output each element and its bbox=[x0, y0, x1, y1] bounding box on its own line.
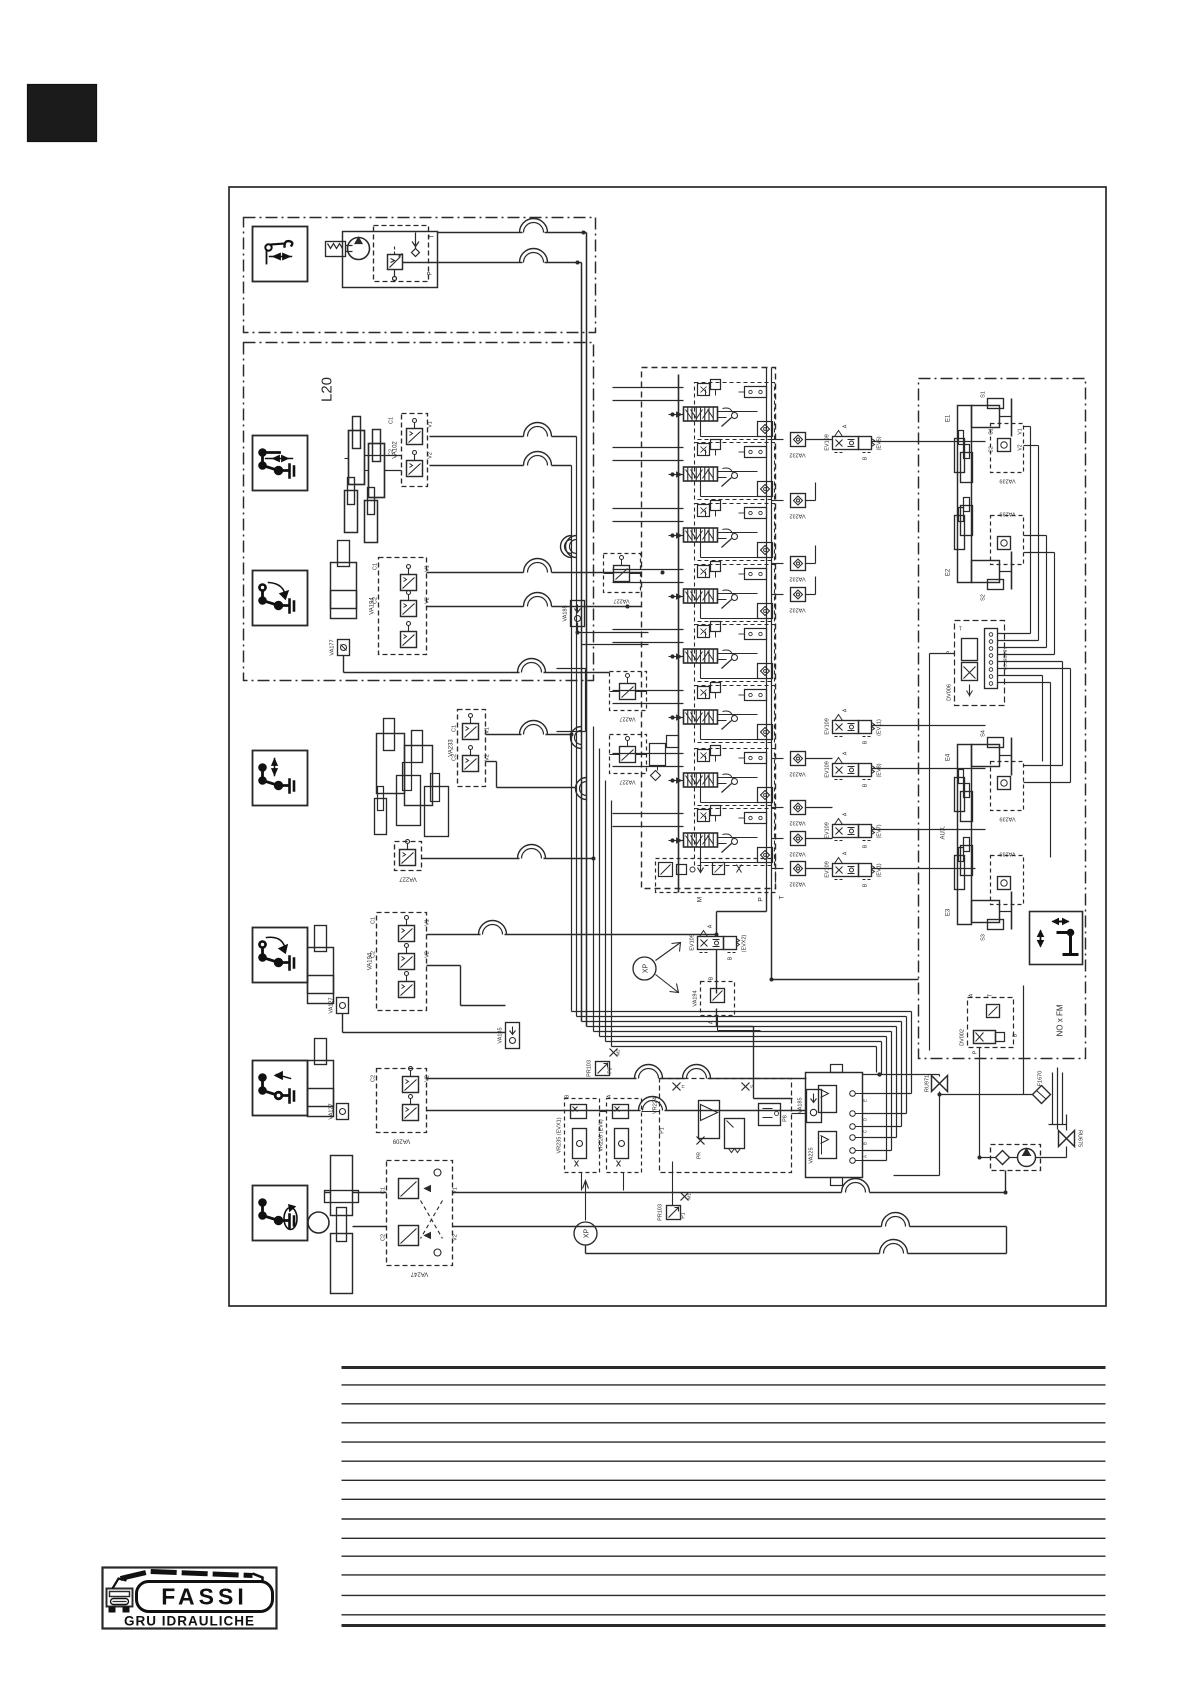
main schematic border frame bbox=[229, 187, 1106, 1306]
svg-text:E3: E3 bbox=[946, 908, 952, 916]
svg-text:VA232: VA232 bbox=[789, 820, 805, 826]
cylinder E2 bbox=[946, 552, 1012, 601]
svg-text:T: T bbox=[959, 627, 962, 633]
svg-text:VA232: VA232 bbox=[789, 513, 805, 519]
svg-text:V2: V2 bbox=[425, 951, 431, 958]
svg-text:C2: C2 bbox=[371, 951, 377, 958]
valve VA177 bbox=[330, 639, 350, 655]
cylinder extension rams E3/E4 bbox=[955, 770, 973, 890]
wire boom V1 line bbox=[430, 423, 577, 437]
valve RU971 bbox=[925, 1075, 948, 1092]
svg-text:RU971: RU971 bbox=[925, 1075, 931, 1092]
wire EV109 outputs to stabilizer section bbox=[872, 442, 986, 869]
svg-text:(EV5): (EV5) bbox=[877, 436, 883, 450]
svg-text:GRU IDRAULICHE: GRU IDRAULICHE bbox=[124, 1614, 255, 1629]
svg-text:VA232: VA232 bbox=[789, 771, 805, 777]
svg-text:P3: P3 bbox=[608, 1067, 614, 1073]
wire jib VA127 line bbox=[343, 1014, 506, 1033]
valve VA185 boom line check bbox=[563, 601, 585, 627]
svg-text:V1: V1 bbox=[425, 919, 431, 926]
valve VA232 #6 bbox=[789, 801, 805, 826]
svg-text:V1: V1 bbox=[1018, 428, 1024, 434]
svg-text:C2: C2 bbox=[381, 1234, 387, 1241]
rotary actuator slewing cylinder bbox=[308, 1156, 359, 1294]
wire tank rail T (double) bbox=[767, 368, 772, 893]
solenoid valve EV109 (EV11) bbox=[825, 708, 883, 744]
svg-text:T: T bbox=[430, 234, 436, 238]
valve VA232 #1 bbox=[789, 433, 805, 458]
wire vertical crossover bumps bbox=[561, 536, 587, 800]
wire telescopic V1 line bbox=[486, 721, 572, 735]
valve VA232 #4 bbox=[789, 588, 805, 613]
valve block VA225 bbox=[806, 1065, 868, 1186]
valve VR224 hand pump group bbox=[653, 1079, 792, 1173]
svg-text:C1: C1 bbox=[373, 563, 379, 570]
svg-text:V2: V2 bbox=[453, 1234, 459, 1241]
wire jib V1 line bbox=[427, 921, 701, 935]
valve VA127 jib bbox=[329, 997, 349, 1013]
svg-text:VA185: VA185 bbox=[798, 1097, 804, 1113]
svg-text:C2: C2 bbox=[371, 1075, 377, 1082]
valve VA239 #2 bbox=[991, 511, 1024, 565]
valve VA239 #4 bbox=[991, 851, 1024, 905]
svg-text:P1: P1 bbox=[660, 1127, 666, 1133]
svg-text:VA232: VA232 bbox=[789, 881, 805, 887]
wire outer boom V1 line bbox=[427, 559, 642, 573]
svg-text:A: A bbox=[863, 1155, 868, 1158]
svg-text:B: B bbox=[863, 1142, 868, 1145]
svg-text:VA227: VA227 bbox=[613, 598, 629, 604]
cylinder jib lift bbox=[308, 926, 334, 1004]
svg-text:(EVX2): (EVX2) bbox=[742, 934, 748, 952]
svg-text:VA185: VA185 bbox=[498, 1027, 504, 1043]
wire XP return line bbox=[586, 1240, 1007, 1254]
function icon 6 (jib articulation) bbox=[253, 1061, 308, 1116]
valve VA227 telescopic bbox=[395, 840, 422, 882]
svg-text:L20: L20 bbox=[319, 377, 336, 402]
svg-text:EV109: EV109 bbox=[825, 718, 831, 735]
svg-text:VA239: VA239 bbox=[999, 511, 1015, 517]
PTO section dash-dot box bbox=[244, 218, 596, 333]
valve VA232 #2 bbox=[789, 494, 805, 519]
valve VA232 #8 bbox=[789, 862, 805, 887]
svg-text:PR: PR bbox=[697, 1152, 703, 1159]
cylinder outer boom bbox=[331, 541, 357, 619]
directional valve module 4 bbox=[613, 562, 775, 622]
auxiliary block near module 7 bbox=[650, 736, 679, 781]
directional valve module 3 bbox=[613, 501, 775, 561]
wire stabilizer section harness to DV006 connector bbox=[930, 427, 1071, 1051]
svg-text:VA225: VA225 bbox=[809, 1147, 815, 1163]
L20 crane section dash-dot box bbox=[244, 343, 594, 681]
svg-text:VA227: VA227 bbox=[399, 876, 417, 882]
svg-text:VA232: VA232 bbox=[789, 851, 805, 857]
valve VA233 (telescopic counterbalance) bbox=[449, 710, 491, 787]
svg-text:V2: V2 bbox=[425, 597, 431, 604]
wire VA177 return line bbox=[344, 656, 610, 673]
svg-text:P: P bbox=[428, 271, 434, 275]
svg-text:E: E bbox=[863, 1099, 868, 1102]
valve DV002 bbox=[960, 993, 1019, 1054]
valve VA185 articulation check bbox=[798, 1090, 822, 1123]
svg-text:S4: S4 bbox=[981, 730, 987, 737]
svg-text:V2: V2 bbox=[485, 754, 491, 761]
wire jib V2 line bbox=[427, 966, 506, 1006]
svg-text:C1: C1 bbox=[389, 417, 395, 424]
function icon 7 (slewing) bbox=[253, 1186, 308, 1241]
valve VR226 (EV4) bbox=[599, 1094, 642, 1172]
filter F1670 bbox=[1033, 1071, 1051, 1104]
svg-text:H: H bbox=[681, 1085, 686, 1088]
wire jib articulation V1 line bbox=[427, 1065, 807, 1079]
svg-text:T: T bbox=[988, 994, 994, 997]
wire boom V2 line bbox=[430, 452, 572, 466]
wire pressure rail P bbox=[678, 375, 680, 893]
main control valve bank enclosure (dashed) bbox=[642, 368, 776, 889]
wire slewing supply from cylinder bbox=[325, 1193, 387, 1227]
svg-text:VA239: VA239 bbox=[999, 816, 1015, 822]
diverter valve DV006 with connector bbox=[947, 621, 1008, 706]
svg-text:EV109: EV109 bbox=[825, 861, 831, 878]
svg-text:M1: M1 bbox=[687, 1193, 692, 1200]
FASSI logo bbox=[103, 1568, 277, 1629]
wire jib line to EVX2 and VA194 pilot chain bbox=[701, 893, 793, 1099]
svg-text:ABCDEFGH: ABCDEFGH bbox=[1003, 647, 1008, 670]
valve VA194 pilot (B/A) bbox=[693, 976, 761, 1030]
svg-text:S1: S1 bbox=[981, 391, 987, 398]
wire telescopic V2 line bbox=[486, 762, 577, 788]
stabilizer section dash-dot box bbox=[919, 379, 1086, 1059]
valve VA232 #7 bbox=[789, 832, 805, 857]
wire outer boom V2 line bbox=[427, 593, 642, 607]
valve VA232 #5 bbox=[789, 752, 805, 777]
svg-text:PR103: PR103 bbox=[658, 1204, 664, 1221]
valve RU675 bbox=[1059, 1130, 1083, 1147]
svg-text:VA247: VA247 bbox=[410, 1271, 428, 1277]
svg-text:VA227: VA227 bbox=[619, 716, 635, 722]
svg-text:VA232: VA232 bbox=[789, 452, 805, 458]
wire telescopic VA227 line bbox=[422, 845, 594, 859]
svg-text:EV109: EV109 bbox=[825, 761, 831, 778]
valve VA194 (jib holding valve) bbox=[368, 913, 431, 1011]
wire bundle risers to lower manifold bbox=[572, 1012, 912, 1161]
cylinder group telescopic extensions bbox=[375, 719, 449, 837]
svg-text:C2: C2 bbox=[373, 597, 379, 604]
pressure gauge PR103 P3 bbox=[587, 1049, 621, 1077]
svg-text:VA232: VA232 bbox=[789, 576, 805, 582]
directional valve module 2 bbox=[613, 440, 775, 500]
directional valve module 1 bbox=[613, 380, 775, 440]
svg-text:E2: E2 bbox=[946, 568, 952, 576]
svg-text:M2: M2 bbox=[616, 1049, 621, 1056]
cylinder group boom (two lift cylinders) bbox=[345, 417, 402, 543]
valve VA194 (outer boom holding valve) bbox=[370, 558, 431, 655]
label L20 bbox=[319, 377, 336, 402]
stabilizer group E3/E4 frame bbox=[958, 745, 972, 925]
solenoid valve EV109 (EV8) bbox=[825, 751, 883, 787]
wire slewing V2 line bbox=[453, 1213, 1007, 1254]
cylinder E4 bbox=[946, 730, 1012, 775]
svg-text:EV109: EV109 bbox=[825, 822, 831, 839]
auxiliary pump group bbox=[991, 1145, 1041, 1171]
svg-text:P8: P8 bbox=[783, 1115, 789, 1122]
wire VR224 pilot lines bbox=[582, 1112, 806, 1206]
function icon 3 (boom articulation) bbox=[253, 571, 308, 626]
tank reservoir bbox=[1049, 1068, 1067, 1130]
cylinder E3 bbox=[946, 892, 1012, 941]
svg-text:F1670: F1670 bbox=[1038, 1071, 1044, 1087]
svg-text:VA127: VA127 bbox=[329, 997, 335, 1013]
svg-text:VA177: VA177 bbox=[330, 639, 336, 655]
function icon 2 (boom raise) bbox=[253, 436, 308, 491]
svg-text:C1: C1 bbox=[989, 428, 995, 435]
svg-text:FASSI: FASSI bbox=[161, 1584, 247, 1610]
svg-text:XP: XP bbox=[584, 1229, 591, 1239]
svg-text:EV109: EV109 bbox=[690, 934, 696, 951]
function icon 5 (jib raise) bbox=[253, 928, 308, 983]
svg-text:VA194: VA194 bbox=[693, 990, 699, 1006]
svg-text:(EV7): (EV7) bbox=[877, 824, 883, 838]
svg-text:AUX.: AUX. bbox=[941, 825, 947, 839]
wire slewing V1 line bbox=[453, 1171, 1006, 1193]
svg-text:C1: C1 bbox=[452, 725, 458, 732]
svg-text:VA127: VA127 bbox=[329, 1103, 335, 1119]
svg-text:VR226 (EV4): VR226 (EV4) bbox=[599, 1119, 605, 1152]
valve VR235 (EVX1) bbox=[557, 1094, 600, 1172]
svg-text:DV006: DV006 bbox=[947, 684, 953, 701]
result table rule lines bbox=[342, 1368, 1106, 1626]
svg-text:NO x FM: NO x FM bbox=[1056, 1004, 1065, 1036]
valve VA239 #3 bbox=[991, 762, 1024, 822]
svg-text:P: P bbox=[758, 897, 765, 901]
wire jib articulation V2 line bbox=[427, 1097, 807, 1111]
svg-text:P1: P1 bbox=[681, 1212, 687, 1218]
function icon 4 (telescopic extension) bbox=[253, 751, 308, 806]
svg-text:S3: S3 bbox=[981, 934, 987, 941]
svg-text:C2: C2 bbox=[452, 754, 458, 761]
valve VA227 #1 bbox=[604, 554, 641, 604]
svg-text:(EV11): (EV11) bbox=[877, 719, 883, 736]
svg-text:VA185: VA185 bbox=[563, 605, 569, 621]
svg-text:(EV1): (EV1) bbox=[877, 863, 883, 877]
wire pump pressure line to valve bank bbox=[438, 219, 587, 1027]
wire VA232 connection stubs bbox=[772, 440, 833, 869]
valve VA127 jib articulation bbox=[329, 1103, 349, 1119]
svg-text:EV109: EV109 bbox=[825, 434, 831, 451]
svg-text:VA239: VA239 bbox=[999, 851, 1015, 857]
svg-text:T: T bbox=[779, 895, 786, 899]
wire telescopic U-link bbox=[557, 669, 586, 732]
directional valve module 6 bbox=[613, 683, 775, 743]
svg-text:DV002: DV002 bbox=[960, 1029, 966, 1046]
svg-text:M: M bbox=[697, 897, 704, 902]
svg-text:VA209: VA209 bbox=[392, 1138, 410, 1144]
pressure gauge PR103 P1 bbox=[658, 1193, 692, 1221]
directional valve module 8 bbox=[613, 806, 775, 866]
test point XP circle 2 bbox=[633, 943, 681, 993]
cylinder extension rams E1/E2 bbox=[955, 431, 973, 550]
wire tank suction lines bbox=[894, 986, 1067, 1176]
svg-text:XP: XP bbox=[643, 964, 650, 974]
svg-text:PR103: PR103 bbox=[587, 1060, 593, 1077]
svg-text:VA239: VA239 bbox=[999, 478, 1015, 484]
label AUX bbox=[941, 825, 947, 839]
valve VA227 #3 bbox=[610, 735, 647, 785]
svg-text:C2: C2 bbox=[989, 446, 995, 453]
svg-text:(EV8): (EV8) bbox=[877, 763, 883, 777]
valve VA185 jib line check bbox=[498, 1023, 520, 1049]
pump unit P with relief valve bbox=[326, 226, 438, 288]
svg-text:VR235 (EVX1): VR235 (EVX1) bbox=[557, 1117, 563, 1153]
function icon 1 (PTO / pump engage) bbox=[253, 227, 308, 282]
valve VA247 (slewing crossover relief) bbox=[381, 1161, 459, 1277]
function icon 8 (stabilizers) bbox=[1030, 912, 1083, 965]
stabilizer group E1/E2 frame bbox=[958, 406, 972, 583]
svg-text:C1: C1 bbox=[371, 917, 377, 924]
cylinder E1 bbox=[946, 391, 1012, 436]
svg-text:P: P bbox=[947, 650, 953, 654]
junction dots bbox=[570, 231, 1007, 1194]
valve bank inlet section bbox=[656, 859, 786, 903]
svg-text:VA232: VA232 bbox=[789, 607, 805, 613]
svg-text:C2: C2 bbox=[389, 449, 395, 456]
valve VA102 (boom counterbalance) bbox=[389, 414, 434, 487]
wire RU971 feed line bbox=[863, 1073, 940, 1077]
solenoid valve EV109 (EV5) bbox=[825, 424, 883, 460]
wire pump return line bbox=[403, 249, 582, 1022]
solenoid valve EV109 (EVX2) bbox=[690, 924, 748, 960]
page number block (black) bbox=[28, 85, 97, 142]
wire tank rail to lower section bbox=[772, 893, 919, 980]
svg-text:V2: V2 bbox=[428, 452, 434, 459]
test point XP circle 1 bbox=[574, 1181, 597, 1246]
valve VA232 #3 bbox=[789, 557, 805, 582]
label NO x FM bbox=[1056, 1004, 1065, 1036]
svg-text:V1: V1 bbox=[425, 565, 431, 572]
svg-text:V1: V1 bbox=[485, 727, 491, 734]
svg-text:V2: V2 bbox=[1018, 444, 1024, 450]
svg-text:VA227: VA227 bbox=[619, 779, 635, 785]
svg-text:E4: E4 bbox=[946, 753, 952, 761]
valve VA227 #2 bbox=[610, 672, 647, 722]
valve VA209 bbox=[371, 1067, 431, 1144]
wire VA185 outlet stubs bbox=[578, 623, 649, 645]
directional valve module 7 bbox=[613, 746, 775, 806]
wire bundle vertical segments bbox=[572, 233, 612, 1047]
solenoid valve EV109 (EV1) bbox=[825, 851, 883, 887]
svg-text:E1: E1 bbox=[946, 414, 952, 422]
directional valve module 5 bbox=[613, 622, 775, 682]
solenoid valve EV109 (EV7) bbox=[825, 812, 883, 848]
valve VA239 #1 bbox=[989, 424, 1024, 484]
svg-text:S2: S2 bbox=[981, 594, 987, 601]
svg-text:V1: V1 bbox=[428, 421, 434, 428]
cylinder jib articulation bbox=[308, 1039, 334, 1117]
svg-text:RU675: RU675 bbox=[1077, 1130, 1083, 1147]
